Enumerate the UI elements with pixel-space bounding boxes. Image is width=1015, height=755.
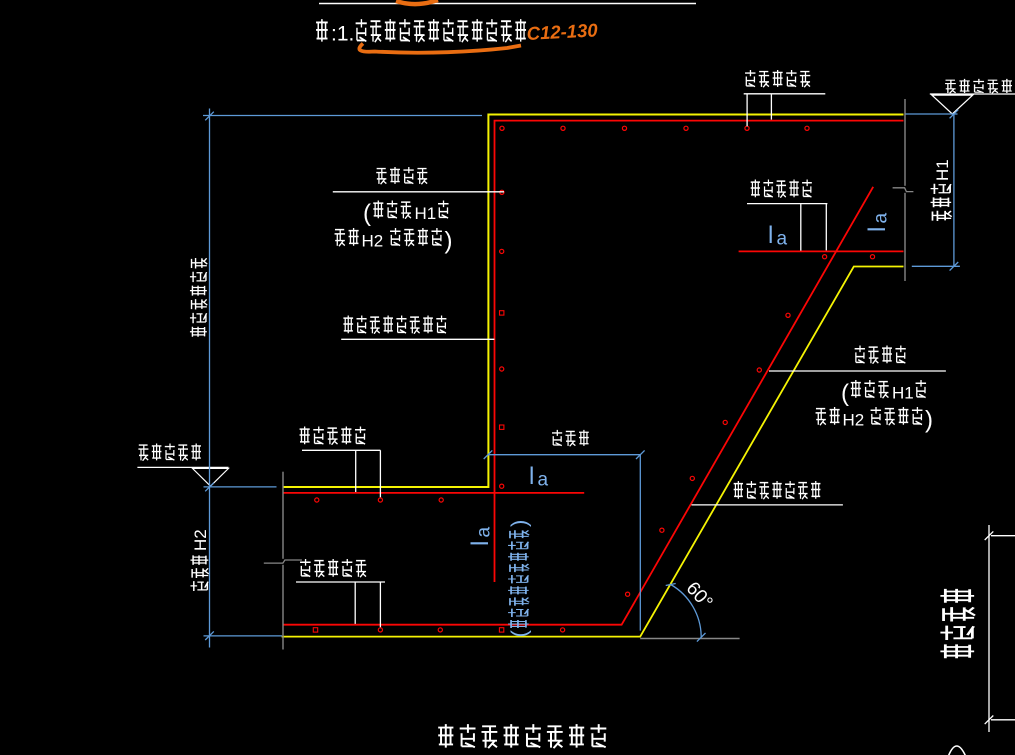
leader: tongban dingbu — [341, 338, 494, 340]
svg-text:): ) — [445, 228, 453, 255]
orange hand underline — [359, 44, 521, 53]
rotated label: dibanhou H1 — [931, 184, 952, 221]
orange scribble fragment (cut at top) — [396, 0, 438, 4]
lower slab bottom red rebar + 60deg diagonal rebar — [284, 187, 874, 625]
svg-text:a: a — [777, 229, 788, 250]
svg-text:): ) — [925, 407, 933, 434]
rebar dots: wall column — [500, 190, 504, 194]
label: shangdibangangjin (top) — [745, 70, 755, 87]
bottom-right cut rotated paren — [948, 746, 966, 755]
leader: 2nd shangdibangangjin — [747, 204, 827, 251]
orange handwriting C12-130 — [526, 19, 599, 44]
svg-text:H2: H2 — [191, 529, 210, 551]
svg-text:a: a — [871, 213, 892, 224]
svg-text:H1: H1 — [892, 384, 914, 403]
svg-text:(: ( — [841, 380, 849, 407]
lower slab top red rebar line — [284, 492, 585, 494]
label: banhou H2 peijindazhi) (right) — [816, 409, 827, 426]
leader: right dibangangjin — [769, 370, 946, 372]
label: dibanhou (dim text) — [552, 430, 562, 446]
svg-text::1.: :1. — [331, 23, 354, 46]
upper slab / wall yellow outline — [283, 115, 904, 488]
label: dibangangjin (left) — [376, 169, 386, 185]
rotated label: faban houdu — [940, 589, 975, 658]
label: dibangangjin (right) — [855, 345, 865, 363]
svg-text:l: l — [529, 463, 534, 490]
svg-text:H2: H2 — [843, 411, 865, 430]
leader: xiadibangangjin shangwan — [692, 504, 843, 506]
right gray section line (lower part) — [904, 193, 906, 281]
bottom gray base line extension — [640, 638, 739, 640]
left gray section line (upper part) — [282, 472, 284, 559]
mid bench red rebar line — [739, 250, 904, 252]
top extension line to wall corner — [203, 115, 482, 117]
svg-text:H1: H1 — [933, 159, 952, 181]
rotated text la (left of anchor) — [467, 527, 495, 547]
leader: 2nd xiadibangangjin — [296, 582, 385, 627]
svg-text:): ) — [507, 520, 532, 527]
rebar dots: upper slab row — [500, 126, 504, 130]
rotated label: (zhimao bugou shi caiyong wanmao) blue — [507, 630, 532, 638]
dimension drop line to bottom corner — [639, 455, 641, 631]
svg-text:l: l — [768, 222, 773, 249]
right white dimension line — [989, 525, 1015, 732]
note text body (12 chars) — [356, 19, 367, 41]
mid extension line at lower elevation — [204, 486, 277, 488]
60 degree angular dimension arc — [671, 585, 702, 638]
dimension: dibanhou H1 (right vertical) — [953, 114, 955, 266]
rotated label: dibanhou H2 — [190, 555, 208, 591]
label: xiadibangangjin (2nd) — [300, 559, 311, 577]
label: banhou H2 peijindazhi) (left) — [335, 230, 346, 247]
rebar dots: lower slab bottom row — [313, 628, 317, 632]
label: shangdibanbiaogao — [945, 80, 956, 93]
text 60deg rotated — [682, 578, 717, 613]
break mark on right gray line — [893, 188, 914, 192]
svg-text:C12-130: C12-130 — [526, 19, 599, 44]
note text 'zhu' — [316, 19, 328, 41]
upper slab elevation symbol — [930, 94, 1015, 114]
title: zheban gaocha gouzao dayang — [438, 724, 453, 747]
lower slab elevation symbol — [137, 467, 228, 486]
upper slab red line + wall red vertical (rebar) — [495, 121, 904, 582]
rebar dots: mid bench row — [823, 255, 827, 259]
label: tongban dingbu tongxiang peijin — [343, 315, 353, 333]
leader: left dibangangjin — [333, 191, 504, 193]
left gray section line (lower part) — [282, 565, 284, 650]
rebar dots: diagonal row — [786, 313, 790, 317]
svg-text:l: l — [467, 541, 494, 546]
break mark on left gray line — [264, 560, 302, 563]
rotated text la (right, on diagonal) — [864, 213, 892, 233]
svg-text:l: l — [864, 227, 891, 232]
label: xiadibanbiaogao — [138, 445, 148, 461]
leader: 1st xiadibangangjin — [302, 450, 380, 497]
dimension: dibanhou (slab thickness, horizontal) — [488, 454, 640, 456]
label: shangdibangangjin (2nd) — [751, 179, 760, 197]
lower slab yellow bottom + diagonal + upper bench yellow — [282, 267, 904, 637]
rotated label: shangxia diban gaocha — [190, 258, 207, 337]
right gray section line (upper part) — [904, 99, 906, 186]
leader: top shangdibangangjin — [744, 94, 826, 126]
svg-text:H2: H2 — [362, 232, 384, 251]
label: xiadibangangjin shangwan — [734, 481, 743, 499]
top rule line — [319, 3, 696, 5]
svg-text:a: a — [538, 470, 549, 491]
rebar dots: lower slab top row — [315, 498, 319, 502]
label: xiadibangangjin (1st) — [300, 426, 310, 444]
left dimension line (vertical) — [209, 109, 211, 648]
svg-text:a: a — [474, 527, 495, 538]
svg-text:(: ( — [363, 200, 371, 227]
svg-text:(: ( — [507, 630, 532, 638]
svg-text:H1: H1 — [415, 204, 437, 223]
bottom extension line — [204, 635, 283, 637]
